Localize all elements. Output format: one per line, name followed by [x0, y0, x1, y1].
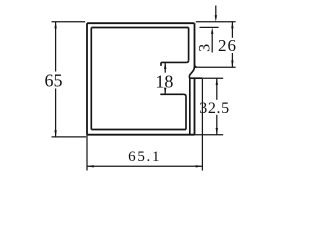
dimension line 26 lower segment: [231, 53, 233, 67]
dimension framework: [52, 6, 236, 171]
outer left edge: [86, 23, 88, 135]
arrow 32.5 top (up): [216, 78, 218, 85]
dimension line 32.5 lower segment: [216, 115, 218, 135]
arrow 26 bottom (down): [231, 61, 233, 68]
extension line lip level (26 dim bottom / 3 dim): [197, 66, 236, 68]
dimension line 65 upper segment: [55, 22, 57, 72]
arrow 18 bottom (down): [164, 88, 166, 95]
inner right wall lower: [189, 78, 191, 135]
arrow 26 top (up): [231, 22, 233, 29]
svg-text:3: 3: [196, 44, 213, 52]
arrow 32.5 bottom (down): [216, 128, 218, 135]
arrow 65.1 right (right): [196, 165, 203, 167]
outer top edge: [87, 22, 195, 24]
slot upper S-curve: [189, 67, 194, 78]
arrowheads: [54, 15, 233, 167]
svg-text:65.1: 65.1: [128, 149, 161, 165]
outer bottom edge: [87, 134, 195, 136]
svg-text:26: 26: [218, 36, 237, 55]
profile inner contour: [91, 28, 202, 135]
svg-text:18: 18: [155, 72, 173, 92]
arrow 3 bottom (up, tip on inner ceiling ext): [211, 27, 213, 34]
profile outer contour (square tube): [87, 23, 197, 135]
dimension line 3 upper shaft (from above): [215, 6, 217, 17]
lower ledge: [160, 93, 183, 95]
dimension line 65 lower segment: [55, 89, 57, 137]
extension line lower lip (32.5 dim top): [202, 77, 223, 79]
extension line left wall down (65.1 dim): [86, 135, 88, 171]
fillet lower ledge to web: [184, 94, 186, 96]
arrow 65 bottom (down): [54, 130, 56, 137]
arrow 3 top (down, tip on top ext line): [215, 15, 217, 22]
inner right wall upper: [188, 28, 190, 61]
inner top edge: [91, 27, 188, 29]
upper ledge end tick: [160, 62, 162, 66]
fillet inner wall to upper ledge: [186, 60, 188, 62]
outer right edge upper segment: [194, 23, 196, 68]
inner bottom edge: [91, 129, 186, 131]
dimension line 18 upper segment: [164, 62, 166, 72]
web below lower ledge: [185, 97, 187, 130]
extension line inner ceiling right (3 dim): [200, 26, 219, 28]
extension line bottom right (32.5 dim bottom): [195, 134, 224, 136]
dimension line 26 upper segment: [231, 22, 233, 38]
svg-text:32.5: 32.5: [199, 100, 229, 117]
fillet outer wall to top lip: [195, 65, 197, 67]
dimension texts: [45, 36, 238, 165]
outer right edge lower segment: [194, 78, 196, 135]
upper ledge: [161, 61, 186, 63]
extension line right lip down (65.1 dim): [201, 79, 203, 171]
dimension line 65.1: [87, 165, 202, 167]
svg-text:65: 65: [45, 71, 63, 91]
arrow 65 top (up): [54, 22, 56, 29]
arrow 18 top (up): [164, 62, 166, 69]
extension line top left (65 dim): [52, 21, 86, 23]
extension line bottom left (65 dim): [52, 136, 87, 138]
lower lip surface: [190, 77, 203, 79]
inner left edge: [90, 28, 92, 130]
dimension line 18 lower segment: [164, 90, 166, 95]
extension line top right (26 dim): [196, 21, 236, 23]
dimension line 3 lower shaft (below inner ceiling): [211, 33, 213, 53]
arrow 65.1 left (left): [87, 165, 94, 167]
dimension line 32.5 upper segment: [216, 78, 218, 100]
